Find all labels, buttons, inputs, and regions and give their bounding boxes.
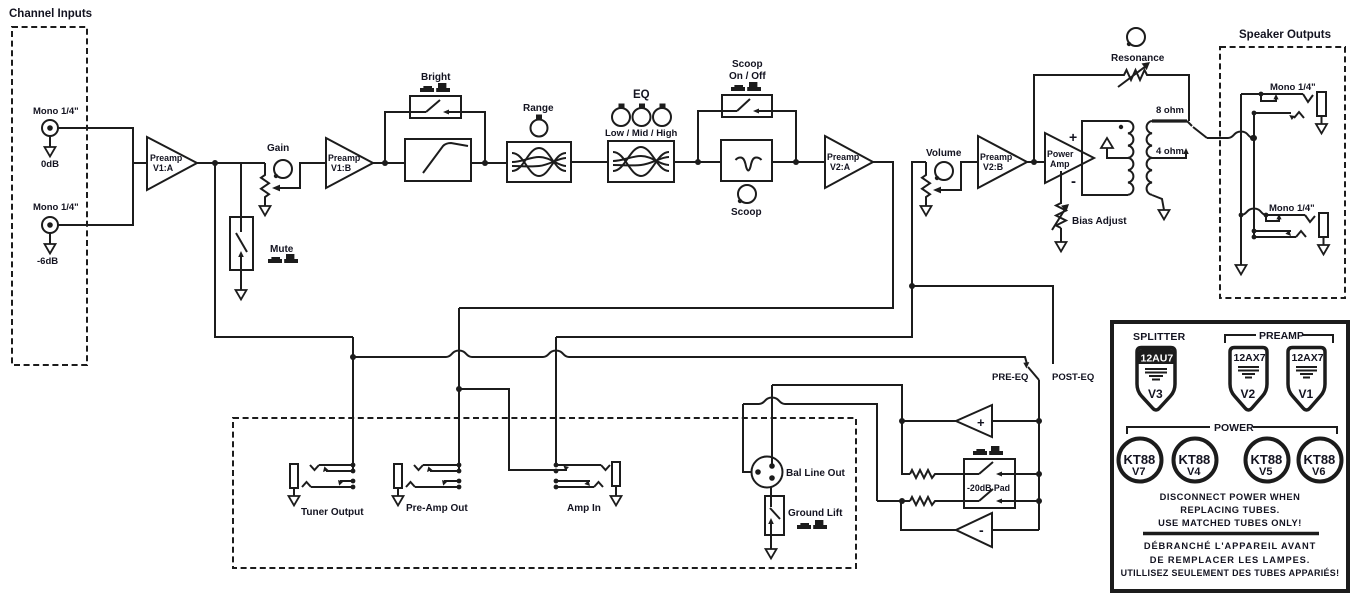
variable resistor Bias Adjust xyxy=(1052,171,1127,252)
wire mute tap down xyxy=(240,163,242,217)
wire pre-eq line with hops xyxy=(353,351,1027,365)
svg-text:Mute: Mute xyxy=(270,244,294,255)
tube V6 KT88 xyxy=(1299,439,1342,482)
node amp-in link tap xyxy=(456,386,462,392)
svg-text:0dB: 0dB xyxy=(41,159,59,170)
svg-text:V2:B: V2:B xyxy=(983,162,1003,172)
svg-text:Mono 1/4": Mono 1/4" xyxy=(33,202,79,213)
svg-text:-: - xyxy=(979,522,984,538)
wire pre-amp out to amp-in normal link xyxy=(459,389,567,470)
wire scoop to V2:A xyxy=(772,161,825,163)
svg-text:Speaker Outputs: Speaker Outputs xyxy=(1239,29,1331,41)
wire di select bus xyxy=(1038,380,1040,530)
svg-text:V6: V6 xyxy=(1312,466,1325,478)
svg-text:V1:A: V1:A xyxy=(153,163,174,173)
svg-text:Preamp: Preamp xyxy=(827,152,860,162)
jack Pre-Amp Out xyxy=(393,463,469,514)
potentiometer Gain xyxy=(260,143,327,216)
primary polarity dot xyxy=(1119,125,1123,129)
switch speaker impedance select xyxy=(1193,127,1207,138)
pre-eq arrowhead xyxy=(1023,362,1029,368)
wire bright bypass right xyxy=(461,112,485,163)
wire speaker ground bus xyxy=(1240,94,1242,265)
speaker outputs dashed box xyxy=(1220,47,1345,298)
svg-text:+: + xyxy=(977,415,985,430)
footswitch icon ground lift xyxy=(797,520,827,529)
wire scoop bypass right xyxy=(772,111,796,162)
switch Ground Lift xyxy=(765,487,843,535)
knob EQ Low xyxy=(612,104,630,127)
svg-text:Scoop: Scoop xyxy=(732,59,763,70)
svg-text:UTILLISEZ SEULEMENT DES TUBES: UTILLISEZ SEULEMENT DES TUBES APPARIÉS! xyxy=(1121,568,1340,578)
wire pre-eq feed bus xyxy=(215,163,353,337)
wire pre-amp out riser xyxy=(458,308,460,471)
svg-text:-20dB Pad: -20dB Pad xyxy=(967,483,1010,493)
wire V2:B output xyxy=(1027,161,1045,163)
wire minus driver output xyxy=(901,501,956,530)
wire V2:A output down to Pre-Amp Out bus xyxy=(459,162,893,308)
resistor R1 pad row1 xyxy=(910,470,964,478)
svg-text:12AX7: 12AX7 xyxy=(1292,352,1324,364)
svg-text:Scoop: Scoop xyxy=(731,207,762,218)
variable resistor Resonance xyxy=(1111,28,1165,87)
wire feedback loop up xyxy=(1034,75,1118,162)
wire xlr pin2 to plus driver xyxy=(772,385,902,421)
svg-text:V2: V2 xyxy=(1241,387,1256,401)
switch Bright xyxy=(410,96,461,118)
switch pre/post eq blade xyxy=(1028,367,1039,380)
wire EQ to scoop xyxy=(674,161,721,163)
svg-text:V4: V4 xyxy=(1187,466,1201,478)
wire 4 ohm tap xyxy=(1152,146,1189,158)
wire plus driver output xyxy=(902,420,956,422)
svg-text:Resonance: Resonance xyxy=(1111,53,1165,64)
op-amp U2 Preamp V1:B xyxy=(326,138,373,188)
jack Amp In xyxy=(554,462,622,514)
svg-text:KT88: KT88 xyxy=(1179,452,1211,467)
svg-text:Preamp: Preamp xyxy=(328,153,361,163)
wire amp-in riser to volume pot xyxy=(556,162,926,337)
jack Tuner Output xyxy=(289,463,365,518)
svg-text:POST-EQ: POST-EQ xyxy=(1052,372,1094,383)
svg-text:V3: V3 xyxy=(1148,387,1163,401)
svg-text:8 ohm: 8 ohm xyxy=(1156,105,1184,116)
switch Scoop On/Off xyxy=(722,95,772,117)
wire pad row2 right xyxy=(1015,500,1039,502)
svg-text:KT88: KT88 xyxy=(1304,452,1336,467)
knob Scoop xyxy=(731,185,762,218)
svg-text:Power: Power xyxy=(1047,149,1074,159)
wire xlr pin3 drop xyxy=(743,404,752,472)
resistor R2 pad row2 xyxy=(910,497,964,505)
node scoop tap left xyxy=(695,159,701,165)
svg-text:Mono 1/4": Mono 1/4" xyxy=(1269,203,1315,214)
svg-text:Amp: Amp xyxy=(1050,159,1070,169)
node scoop tap right xyxy=(793,159,799,165)
wire bright bypass left xyxy=(385,112,410,163)
label POWER with bracket xyxy=(1127,422,1337,434)
svg-text:Preamp: Preamp xyxy=(150,153,183,163)
connector XLR Bal Line Out xyxy=(752,457,846,488)
svg-text:Tuner Output: Tuner Output xyxy=(301,507,364,518)
svg-text:DÉBRANCHÉ L'APPAREIL AVANT: DÉBRANCHÉ L'APPAREIL AVANT xyxy=(1144,541,1316,551)
wire plus node to pad row1 xyxy=(902,421,910,474)
svg-text:V7: V7 xyxy=(1132,466,1145,478)
input jack J1 Mono 1/4" xyxy=(33,106,79,170)
svg-text:Range: Range xyxy=(523,103,554,114)
tube V4 KT88 xyxy=(1174,439,1217,482)
wire post-eq line xyxy=(912,286,1053,364)
svg-text:12AU7: 12AU7 xyxy=(1141,353,1174,365)
footswitch icon pad xyxy=(973,446,1003,455)
divider rule xyxy=(1143,532,1319,535)
svg-text:POWER: POWER xyxy=(1214,422,1254,434)
knob EQ Mid xyxy=(633,104,651,127)
svg-text:12AX7: 12AX7 xyxy=(1234,352,1266,364)
knob EQ High xyxy=(653,104,671,127)
svg-text:REPLACING TUBES.: REPLACING TUBES. xyxy=(1180,505,1279,515)
wire xlr pin2 drop xyxy=(771,385,773,466)
wire HPF to Range block xyxy=(471,162,507,164)
svg-text:V2:A: V2:A xyxy=(830,162,851,172)
node bright tap right xyxy=(482,160,488,166)
op-amp Power Amp xyxy=(1045,133,1094,183)
svg-text:USE MATCHED TUBES ONLY!: USE MATCHED TUBES ONLY! xyxy=(1158,518,1302,528)
svg-text:Bal Line Out: Bal Line Out xyxy=(786,468,846,479)
footswitch icon bright xyxy=(420,83,450,92)
op-amp U3 Preamp V2:A xyxy=(825,136,873,188)
wire secondary to ground xyxy=(1152,195,1164,210)
node after V1:A xyxy=(212,160,218,166)
svg-text:EQ: EQ xyxy=(633,89,650,101)
svg-text:DE REMPLACER LES LAMPES.: DE REMPLACER LES LAMPES. xyxy=(1150,555,1311,565)
tube V1 12AX7 xyxy=(1288,348,1325,411)
svg-text:Preamp: Preamp xyxy=(980,152,1013,162)
node pre-eq tap xyxy=(350,354,356,360)
effects loop dashed box xyxy=(233,418,856,568)
block Range filter xyxy=(507,142,571,182)
wire scoop bypass left xyxy=(698,111,722,162)
label PREAMP with bracket xyxy=(1225,330,1333,343)
wire amp in riser xyxy=(555,337,557,465)
svg-text:On / Off: On / Off xyxy=(729,71,766,82)
wire xlr pin3 to minus path with hop xyxy=(743,398,877,502)
svg-text:V5: V5 xyxy=(1259,466,1272,478)
transformer T1 secondary xyxy=(1147,121,1152,195)
tube chart box xyxy=(1112,322,1348,591)
op-amp U1 Preamp V1:A xyxy=(147,137,197,190)
op-amp U4 Preamp V2:B xyxy=(978,136,1027,188)
svg-text:Bias Adjust: Bias Adjust xyxy=(1072,216,1127,227)
wire tuner output riser xyxy=(352,337,354,471)
wire V1:B output to HPF block xyxy=(373,162,405,164)
input jack J2 Mono 1/4" xyxy=(33,202,79,267)
svg-text:Pre-Amp Out: Pre-Amp Out xyxy=(406,503,468,514)
wire plus driver input xyxy=(992,420,1039,422)
svg-text:4 ohm: 4 ohm xyxy=(1156,146,1184,157)
tube V2 12AX7 xyxy=(1230,348,1267,411)
svg-text:Mono 1/4": Mono 1/4" xyxy=(1270,82,1316,93)
tube V7 KT88 xyxy=(1119,439,1162,482)
op-amp DI plus driver xyxy=(956,405,992,437)
svg-text:V1:B: V1:B xyxy=(331,163,351,173)
node bright tap left xyxy=(382,160,388,166)
footswitch icon mute xyxy=(268,254,298,263)
svg-text:-: - xyxy=(1071,173,1076,190)
svg-text:V1: V1 xyxy=(1299,387,1314,401)
potentiometer Volume xyxy=(921,148,979,216)
knob Range xyxy=(523,103,554,137)
block EQ filter xyxy=(608,141,674,182)
speaker jack 2 Mono 1/4" xyxy=(1239,203,1329,255)
wire feedback to 8 ohm tap xyxy=(1160,75,1189,121)
switch Mute xyxy=(230,217,253,270)
speaker jack 1 Mono 1/4" xyxy=(1241,82,1327,134)
center tap arrow B+ xyxy=(1101,138,1128,158)
wire jack1 to bus xyxy=(58,128,133,225)
svg-text:KT88: KT88 xyxy=(1251,452,1283,467)
wire minus path to pad row2 xyxy=(877,500,910,502)
block notch filter scoop xyxy=(721,140,772,181)
svg-text:Low / Mid / High: Low / Mid / High xyxy=(605,128,677,139)
svg-text:Amp In: Amp In xyxy=(567,503,601,514)
svg-text:DISCONNECT POWER WHEN: DISCONNECT POWER WHEN xyxy=(1160,492,1301,502)
svg-text:PREAMP: PREAMP xyxy=(1259,330,1304,342)
wire bus to V1:A input xyxy=(133,162,147,164)
wire 8 ohm tap xyxy=(1152,105,1192,126)
node post-eq tap xyxy=(909,283,915,289)
svg-text:PRE-EQ: PRE-EQ xyxy=(992,372,1028,383)
svg-text:Channel Inputs: Channel Inputs xyxy=(9,8,92,20)
wire mute to ground xyxy=(240,270,242,290)
svg-text:Gain: Gain xyxy=(267,143,289,154)
node jack2 feeds xyxy=(1251,135,1257,141)
svg-text:Bright: Bright xyxy=(421,72,451,83)
svg-text:Volume: Volume xyxy=(926,148,962,159)
block high-pass shape (bright filter) xyxy=(405,139,471,181)
wire speaker signal bus xyxy=(1253,113,1255,237)
svg-text:+: + xyxy=(1069,129,1077,145)
wire V1:A output xyxy=(197,162,265,164)
wire minus driver input xyxy=(992,529,1039,531)
svg-text:KT88: KT88 xyxy=(1124,452,1156,467)
wire ground lift to ground xyxy=(770,535,772,549)
node speaker feed xyxy=(1250,135,1256,141)
tube V3 12AU7 xyxy=(1137,348,1175,411)
svg-text:-6dB: -6dB xyxy=(37,256,58,267)
wire pad row1 right xyxy=(1015,473,1039,475)
transformer T1 primary loop xyxy=(1082,121,1133,195)
wire Range to EQ block xyxy=(571,161,608,163)
wire switch common to speaker box with hop xyxy=(1207,132,1253,139)
node feedback join xyxy=(1031,159,1037,165)
footswitch icon scoop xyxy=(731,82,761,91)
svg-text:SPLITTER: SPLITTER xyxy=(1133,331,1186,343)
channel inputs dashed box xyxy=(12,27,87,365)
op-amp DI minus driver xyxy=(956,513,992,547)
tube V5 KT88 xyxy=(1246,439,1289,482)
svg-text:Mono 1/4": Mono 1/4" xyxy=(33,106,79,117)
switch -20dB Pad xyxy=(964,459,1015,508)
svg-text:Ground Lift: Ground Lift xyxy=(788,508,843,519)
